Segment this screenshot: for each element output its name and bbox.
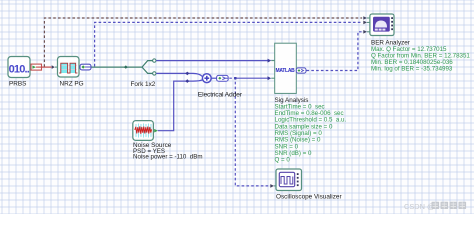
wire fork top branch to MATLAB input1 [156,59,275,63]
wire dashed adder to oscilloscope [229,78,268,186]
Electrical Adder [193,73,217,82]
label Electrical Adder [198,91,243,98]
Electrical Adder output connector [217,75,229,81]
labels BER Analyzer [371,39,470,72]
svg-text:Noise power = -110 dBm: Noise power = -110 dBm [133,154,203,161]
wire adder out to MATLAB input2 [235,76,274,80]
MATLAB output connector [296,68,306,73]
label PRBS [9,81,26,88]
wire NRZ PG to Fork [91,66,142,68]
Noise Source block [133,121,154,141]
junction diamond fork input [124,65,128,68]
svg-text:NRZ PG: NRZ PG [60,81,84,88]
BER Analyzer block [370,14,394,36]
NRZ PG output connector [80,64,91,70]
svg-text:Q = 0: Q = 0 [275,157,291,164]
NRZ PG block [58,57,80,78]
junction node adder/oscilloscope [234,77,236,79]
wire dashed PRBS to BER input1 [44,18,362,67]
label NRZ PG [60,81,84,88]
label Noise Source [133,142,203,161]
arrow BER input2 [363,21,370,25]
svg-text:MATLAB: MATLAB [276,68,296,74]
labels Sig Analysis [275,97,347,164]
Oscilloscope Visualizer block [276,169,302,191]
svg-text:Oscilloscope Visualizer: Oscilloscope Visualizer [276,193,342,200]
arrow BER input3 [363,30,370,34]
wire dashed NRZ PG to BER input2 [95,22,362,66]
svg-text:PRBS: PRBS [9,81,26,88]
PRBS block [8,57,30,78]
arrow NRZ PG input [52,65,58,69]
wire dashed MATLAB out to BER input3 [307,32,363,71]
fork 1x2 split [142,59,156,75]
svg-text:Min. log of BER = -35.734993: Min. log of BER = -35.734993 [371,66,453,73]
arrow BER input1 [363,16,370,20]
watermark CSDN [404,202,466,211]
MATLAB block Sig Analysis [275,43,297,93]
wire fork bottom branch to adder input1 [156,72,193,76]
arrow noise source output [154,129,158,133]
wire noise source to adder input2 [158,79,193,130]
label Fork 1x2 [131,81,156,88]
PRBS output connector [31,64,42,70]
arrow oscilloscope input [270,184,276,188]
wire PRBS to NRZ PG [42,66,52,68]
svg-text:010..: 010.. [9,64,30,76]
svg-text:CSDN @: CSDN @ [404,202,435,211]
label Oscilloscope Visualizer [276,193,342,200]
svg-text:Electrical Adder: Electrical Adder [198,91,243,98]
svg-text:Fork 1x2: Fork 1x2 [131,81,156,88]
